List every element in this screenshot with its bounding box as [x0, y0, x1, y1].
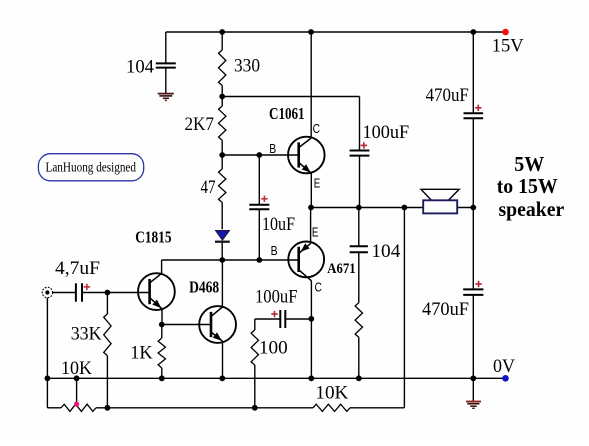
node 0V D468: [219, 375, 225, 381]
label speaker: [499, 197, 565, 221]
wire 104-2 to resistor: [358, 253, 360, 303]
svg-text:D468: D468: [189, 278, 219, 297]
wire feedback mid segment: [96, 407, 313, 409]
wire 0V to ground: [472, 378, 474, 401]
terminal 0V blue dot: [502, 375, 509, 382]
wire 100uF-2 right lead: [285, 318, 311, 320]
node input junction 33K: [105, 290, 111, 296]
wire 0V rail: [47, 377, 505, 379]
wire C1061 collector up to rail: [310, 32, 312, 138]
label 1K: [130, 343, 153, 364]
label to 15W: [497, 174, 558, 198]
node C1815 emitter 1K: [159, 322, 165, 328]
resistor 2K7: [219, 106, 226, 140]
node 0V A671: [308, 375, 314, 381]
capacitor 100uF-1 plus: [361, 142, 367, 148]
svg-text:10uF: 10uF: [262, 214, 295, 235]
label 104 mid: [371, 241, 401, 262]
wire C1061 emitter down: [310, 173, 312, 208]
node 0V right rail: [470, 375, 476, 381]
wire feedback right segment: [350, 407, 404, 409]
svg-text:470uF: 470uF: [426, 85, 469, 106]
node 2K7/47 base C1061: [219, 152, 225, 158]
svg-text:E: E: [314, 177, 321, 191]
transistor A671 (PNP): [288, 242, 324, 281]
label 4,7uF: [55, 258, 100, 279]
label 5W: [514, 152, 544, 176]
diode zener blue: [215, 231, 230, 242]
capacitor 470uF-2 plates: [463, 289, 483, 295]
capacitor 4.7uF plates: [76, 283, 82, 301]
wire 1K bottom lead: [161, 368, 163, 378]
wire C1815 collector to A671 base row: [162, 259, 299, 261]
node 0V 1K: [159, 375, 165, 381]
label 2K7: [185, 114, 215, 135]
wire 100uF-1 top lead: [359, 97, 361, 151]
designer box: [38, 154, 143, 181]
label A671: [327, 261, 355, 277]
wire A671 collector down to 0V: [310, 281, 312, 379]
label 47: [201, 177, 216, 198]
svg-text:100: 100: [259, 338, 288, 359]
resistor 100: [251, 330, 258, 365]
wire C1815 emitter down: [161, 309, 163, 325]
transistor C1815 (NPN): [138, 273, 175, 310]
wire 470uF-1 to out rail: [472, 119, 474, 208]
node 10uF top: [256, 152, 262, 158]
node 10uF bottom A671 base: [256, 257, 262, 263]
svg-text:100uF: 100uF: [255, 287, 298, 308]
wire speaker node down to feedback: [403, 208, 405, 408]
svg-text:104: 104: [371, 241, 401, 262]
label 100uF top: [363, 122, 410, 143]
label 104 input filter: [126, 56, 154, 77]
node feedback 33K: [105, 405, 111, 411]
resistor 104 leg: [355, 303, 362, 338]
svg-text:C1061: C1061: [269, 104, 305, 123]
ground 0V rail: [466, 402, 481, 409]
svg-text:A671: A671: [327, 261, 355, 277]
wire output rail left of speaker: [311, 207, 423, 209]
svg-text:0V: 0V: [493, 356, 515, 377]
wire top 15V rail: [166, 31, 506, 33]
svg-text:104: 104: [126, 56, 154, 77]
speaker body: [423, 200, 457, 213]
svg-text:B: B: [269, 142, 276, 156]
label 10K feedback: [315, 383, 348, 404]
resistor 330: [219, 50, 226, 86]
label 470uF bottom: [422, 299, 469, 320]
svg-text:C: C: [313, 122, 320, 136]
svg-text:470uF: 470uF: [422, 299, 469, 320]
wire 104 cap to ground: [165, 68, 167, 93]
svg-text:2K7: 2K7: [185, 114, 215, 135]
label 15V: [492, 36, 524, 57]
capacitor 100uF-2 plates: [280, 310, 285, 328]
wire C1815 emitter to D468 base: [162, 324, 211, 326]
svg-text:47: 47: [201, 177, 216, 198]
wire input down to feedback: [46, 298, 48, 408]
terminal 15V red dot: [502, 29, 509, 36]
label C1061: [269, 104, 305, 123]
capacitor 470uF-1 plus: [475, 105, 481, 111]
label C1061 E: [314, 177, 321, 191]
wire 100 resistor bottom lead: [254, 365, 256, 408]
wire 33K bottom lead: [106, 356, 108, 408]
resistor 1K: [158, 338, 165, 368]
wire rail to 470uF-1: [472, 32, 474, 113]
node 330/2K7/100uF: [219, 94, 225, 100]
capacitor 470uF-1 plates: [464, 113, 484, 118]
transistor C1061 (NPN): [288, 137, 325, 174]
resistor 33K: [104, 314, 111, 356]
label A671 C: [315, 281, 322, 295]
capacitor 104-2 plates: [350, 246, 368, 252]
label 100uF bottom: [255, 287, 298, 308]
wire node to 47: [221, 155, 223, 169]
wire 100uF-2 left lead: [255, 318, 280, 320]
wire 10uF top lead: [258, 155, 260, 205]
wire 2K7 to node: [221, 140, 223, 155]
wire 4.7uF to C1815 base: [82, 292, 149, 294]
label C1061 C: [313, 122, 320, 136]
wire resistor to 0V: [358, 337, 360, 378]
wire out rail to 470uF-2: [472, 208, 474, 290]
label 0V: [493, 356, 515, 377]
wire 1K top lead: [161, 325, 163, 339]
wire 470uF-2 to 0V: [472, 295, 474, 378]
label C1061 B: [269, 142, 276, 156]
wire 10uF bottom lead: [258, 209, 260, 260]
label D468: [189, 278, 219, 297]
label A671 E: [312, 225, 319, 239]
label 10K left: [61, 358, 92, 379]
capacitor 10uF plus: [261, 196, 267, 202]
node output rail 104-2: [356, 205, 362, 211]
node output rail speaker left: [402, 205, 408, 211]
label C1815: [135, 228, 171, 247]
svg-text:E: E: [312, 225, 319, 239]
label 330: [234, 56, 260, 77]
svg-text:1K: 1K: [130, 343, 153, 364]
wire feedback left segment: [47, 407, 61, 409]
node top rail at 330: [219, 29, 225, 35]
wire pot wiper: [76, 378, 78, 404]
transistor D468 (NPN): [199, 306, 236, 343]
svg-text:100uF: 100uF: [363, 122, 410, 143]
wire node row to 100uF top: [222, 96, 359, 98]
capacitor 100uF-2 plus: [271, 311, 277, 317]
svg-text:10K: 10K: [61, 358, 92, 379]
capacitor 100uF-1 plates: [350, 151, 370, 156]
wire 100 resistor top lead: [254, 319, 256, 330]
node output rail right rail: [470, 205, 476, 211]
svg-text:330: 330: [234, 56, 260, 77]
label 33K: [71, 324, 102, 345]
wire 33K top lead: [106, 293, 108, 315]
label 100: [259, 338, 288, 359]
node diode bottom: [219, 257, 225, 263]
node 0V 104 leg: [356, 375, 362, 381]
wire 100uF-1 bottom lead: [359, 156, 361, 208]
node output rail C1061 E: [308, 205, 314, 211]
svg-text:10K: 10K: [315, 383, 348, 404]
svg-text:B: B: [271, 244, 278, 258]
svg-text:speaker: speaker: [499, 197, 565, 221]
wire output rail right of speaker: [457, 207, 473, 209]
wire C1061 base: [222, 154, 299, 156]
wire rail to 330: [221, 32, 223, 50]
wire out rail to 104-2: [358, 208, 360, 246]
wire D468 emitter to 0V: [222, 341, 224, 378]
capacitor 4.7uF plus: [84, 284, 90, 290]
svg-text:4,7uF: 4,7uF: [55, 258, 100, 279]
node top rail at C1061: [308, 29, 314, 35]
svg-text:C1815: C1815: [135, 228, 171, 247]
wire 330 to node: [221, 86, 223, 97]
potentiometer wiper dot: [74, 402, 79, 407]
capacitor 470uF-2 plus: [475, 281, 481, 287]
svg-text:LanHuong designed: LanHuong designed: [46, 159, 137, 174]
svg-text:to 15W: to 15W: [497, 174, 558, 198]
capacitor 10uF plates: [249, 205, 269, 210]
label 470uF top: [426, 85, 469, 106]
resistor 47: [219, 169, 226, 203]
node A671 collector 100uF-2: [308, 316, 314, 322]
resistor 10K feedback: [313, 404, 350, 411]
wire A671 emitter up to rail: [310, 208, 312, 244]
label 10uF: [262, 214, 295, 235]
wire C1815 collector up: [161, 260, 163, 273]
potentiometer 10K zigzag: [61, 404, 96, 411]
wire input to 4.7uF: [53, 292, 76, 294]
node feedback 100: [252, 405, 258, 411]
wire node to 2K7: [221, 97, 223, 107]
speaker cone: [421, 189, 459, 200]
node 0V input: [45, 375, 51, 381]
ground input filter: [158, 94, 174, 101]
svg-text:5W: 5W: [514, 152, 544, 176]
capacitor 104 input filter: [156, 63, 176, 67]
wire 47 to diode: [221, 203, 223, 230]
wire 104 cap top lead: [165, 32, 167, 63]
label A671 B: [271, 244, 278, 258]
svg-text:33K: 33K: [71, 324, 102, 345]
wire diode to node: [221, 242, 223, 260]
svg-text:15V: 15V: [492, 36, 524, 57]
node 0V wiper: [74, 375, 80, 381]
svg-text:C: C: [315, 281, 322, 295]
input terminal: [42, 287, 52, 297]
node top rail at 470uF: [470, 29, 476, 35]
wire node down to D468 collector: [221, 260, 223, 307]
